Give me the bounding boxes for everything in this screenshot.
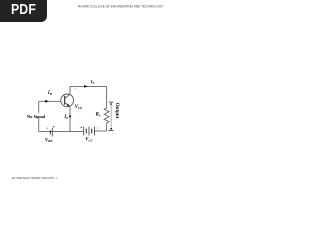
svg-text:VCC: VCC <box>85 138 93 143</box>
svg-text:VCE: VCE <box>75 105 82 110</box>
battery VBB long plate <box>51 128 53 137</box>
svg-text:Output: Output <box>114 103 119 119</box>
output dimension down arrowhead <box>110 128 112 130</box>
svg-text:IB: IB <box>47 91 52 96</box>
VCE dashed measure line <box>77 90 79 127</box>
transistor Q1 base bar <box>64 96 66 105</box>
svg-text:IE: IE <box>63 115 68 120</box>
svg-text:No Signal: No Signal <box>27 114 46 119</box>
battery VBB short plate <box>49 130 51 134</box>
resistor RC zigzag <box>104 108 109 123</box>
transistor Q1 emitter arrowhead <box>67 104 70 107</box>
svg-text:VBB: VBB <box>45 138 52 143</box>
output dimension top bar <box>109 101 114 103</box>
output dimension stem <box>110 104 112 128</box>
PDF badge text <box>4 0 43 21</box>
wire input vertical <box>38 101 40 131</box>
battery VBB plus mark <box>53 126 55 128</box>
battery VBB minus mark <box>47 127 49 129</box>
transistor Q1 collector diagonal <box>65 94 70 98</box>
wire right vertical upper <box>106 86 108 108</box>
transistor Q1 circle <box>61 94 74 107</box>
circuit schematic <box>0 0 149 198</box>
battery VCC plus mark <box>80 127 82 129</box>
output dimension bottom bar <box>108 130 113 132</box>
wire base horizontal <box>39 100 62 102</box>
label No Signal (white bg breaks wire) <box>27 113 48 119</box>
output dimension up arrowhead <box>110 103 112 105</box>
footer text <box>12 177 70 180</box>
svg-text:IC: IC <box>90 80 96 85</box>
transistor Q1 emitter diagonal <box>65 102 70 106</box>
wire emitter vertical <box>69 107 71 132</box>
arrow IC <box>84 85 88 88</box>
battery VCC minus mark <box>97 127 99 129</box>
wire collector vertical <box>69 86 71 94</box>
arrow IE (down, on emitter wire) <box>69 116 72 119</box>
battery VCC plates <box>84 127 95 136</box>
arrow IB <box>45 100 49 103</box>
svg-text:RC: RC <box>96 113 102 118</box>
header text <box>78 5 148 8</box>
wire bottom right <box>95 130 107 132</box>
VCE plus tick <box>75 88 77 90</box>
PDF badge <box>0 0 47 22</box>
wire right vertical lower <box>106 123 108 131</box>
wire top horizontal <box>70 85 107 87</box>
wire bottom left <box>39 131 84 133</box>
